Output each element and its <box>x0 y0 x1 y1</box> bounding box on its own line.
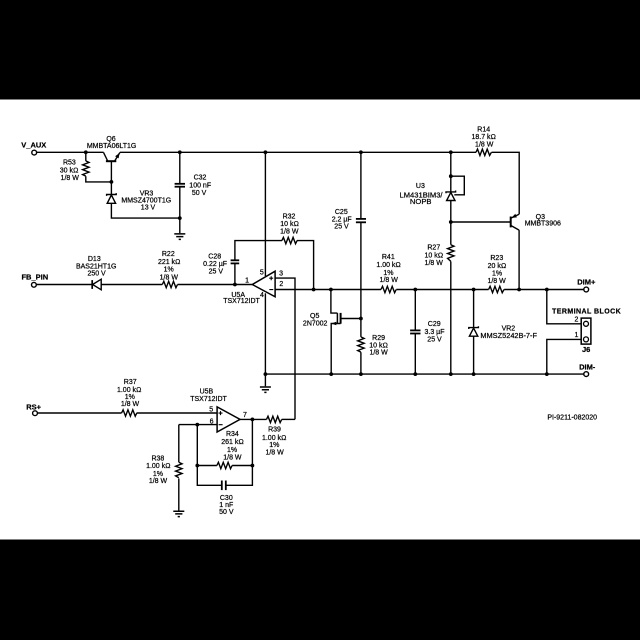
svg-text:D13: D13 <box>88 256 101 263</box>
wire FB row: FB_PIN to D13 <box>36 284 92 286</box>
label C25 <box>332 209 352 230</box>
junction ground row U5A pin4 <box>264 372 268 376</box>
wire R34 loop right <box>232 419 252 465</box>
svg-text:C25: C25 <box>335 209 348 216</box>
svg-text:R23: R23 <box>490 255 503 262</box>
junction ground row R27 <box>449 372 453 376</box>
junction ground row terminal pin1 <box>545 372 549 376</box>
svg-text:R22: R22 <box>162 251 175 258</box>
wire R29 bottom to ground row <box>360 352 362 374</box>
wire R53 top <box>85 152 87 161</box>
label terminal pin 2 <box>574 317 578 324</box>
svg-text:25 V: 25 V <box>334 224 349 231</box>
resistor R14 <box>476 149 491 155</box>
label R23 <box>487 255 506 285</box>
svg-text:261 kΩ: 261 kΩ <box>221 439 244 446</box>
svg-text:R37: R37 <box>124 379 137 386</box>
wire C32 top <box>179 152 181 183</box>
capacitor C30 <box>222 481 226 491</box>
svg-text:18.7 kΩ: 18.7 kΩ <box>471 134 495 141</box>
label Q3 <box>525 214 561 228</box>
label R34 <box>221 431 244 462</box>
wire Q6 base down <box>110 161 112 194</box>
resistor R53 <box>83 161 89 176</box>
wire U5A pin3 to R39 vertical <box>275 278 295 419</box>
svg-text:MMSZ5242B-7-F: MMSZ5242B-7-F <box>480 331 537 340</box>
junction ground row VR2 <box>472 372 476 376</box>
wire C28 top / R32 loop <box>235 241 282 261</box>
label VR2 <box>480 326 537 341</box>
svg-text:1/8 W: 1/8 W <box>280 229 299 236</box>
wire C32 bottom <box>179 187 181 218</box>
resistor R29 <box>358 337 364 352</box>
svg-text:PI-9211-082020: PI-9211-082020 <box>547 415 597 422</box>
shunt reference U3 <box>446 191 456 201</box>
svg-text:R32: R32 <box>283 213 296 220</box>
svg-text:NOPB: NOPB <box>410 197 432 206</box>
label net FB_PIN <box>21 273 48 282</box>
svg-text:20 kΩ: 20 kΩ <box>488 263 507 270</box>
wire U5A pin4 to ground row <box>264 293 266 374</box>
wire C30 loop right <box>226 466 253 486</box>
wire R14 right to Q3 emitter <box>492 152 520 214</box>
svg-text:DIM-: DIM- <box>579 363 596 372</box>
svg-text:C29: C29 <box>428 321 441 328</box>
svg-text:3: 3 <box>279 271 283 278</box>
wire U3 branch top <box>450 152 452 192</box>
junction U3 ref loop top <box>449 174 453 178</box>
terminal block J6 <box>581 318 591 344</box>
zener diode VR3 <box>107 193 117 203</box>
capacitor C32 <box>175 184 185 187</box>
label R14 <box>471 126 495 148</box>
label J6 <box>582 345 590 354</box>
svg-text:R39: R39 <box>268 427 281 434</box>
label terminal pin 1 <box>574 332 578 339</box>
svg-text:C30: C30 <box>220 495 233 502</box>
wire FB row: D13 to R22 <box>101 284 162 286</box>
junction rail U5A pin5 <box>264 150 268 154</box>
svg-text:R53: R53 <box>63 160 76 167</box>
svg-text:2: 2 <box>279 281 283 288</box>
svg-text:0.22 µF: 0.22 µF <box>203 261 227 268</box>
label R39 <box>262 427 286 457</box>
junction U3 / Q3 base <box>449 220 453 224</box>
svg-text:1%: 1% <box>269 442 279 449</box>
svg-text:5: 5 <box>209 407 213 414</box>
junction main row VR2 <box>472 288 476 292</box>
svg-text:Q5: Q5 <box>310 313 319 320</box>
transistor Q6 <box>104 152 120 161</box>
wire C25 top branch <box>360 152 362 218</box>
svg-text:TSX712IDT: TSX712IDT <box>190 396 227 403</box>
wire U5A pin5 power branch <box>264 152 266 276</box>
junction U5B output / R34 loop <box>251 418 255 422</box>
svg-text:1%: 1% <box>153 471 163 478</box>
junction main row Q5 gate <box>329 288 333 292</box>
svg-text:1/8 W: 1/8 W <box>487 278 506 285</box>
wire RS+ row to R37 <box>37 412 121 414</box>
node V_AUX terminal <box>32 150 37 155</box>
svg-text:1%: 1% <box>227 447 237 454</box>
svg-text:1%: 1% <box>125 394 135 401</box>
svg-text:1/8 W: 1/8 W <box>369 349 388 356</box>
wire Q3 collector down <box>518 230 520 289</box>
resistor R27 <box>448 245 454 262</box>
svg-text:3.3 µF: 3.3 µF <box>425 329 445 336</box>
zener diode VR2 <box>469 326 479 336</box>
label C29 <box>425 321 445 344</box>
junction R34/C30 loop right <box>251 464 255 468</box>
svg-text:7: 7 <box>243 412 247 419</box>
svg-text:1.00 kΩ: 1.00 kΩ <box>262 435 286 442</box>
label net RS+ <box>26 403 41 412</box>
junction Q6 base / R53 <box>110 180 114 184</box>
wire U3 reference loop <box>451 176 465 195</box>
wire C28 feedback lower <box>234 264 236 285</box>
wire FB row: R22 to U5A output <box>178 284 253 286</box>
label U5B <box>190 389 227 403</box>
wire U3 anode down to Q3 base node <box>450 200 452 244</box>
label D13 <box>76 256 116 278</box>
resistor R32 <box>282 237 297 243</box>
wire terminal pin2 <box>547 290 581 324</box>
label U5A <box>223 292 260 305</box>
svg-text:1/8 W: 1/8 W <box>265 450 284 457</box>
node FB_PIN terminal <box>32 282 37 287</box>
capacitor C29 <box>410 330 420 333</box>
svg-text:1.00 kΩ: 1.00 kΩ <box>146 463 170 470</box>
diode D13 <box>92 279 101 290</box>
svg-text:DIM+: DIM+ <box>577 278 596 287</box>
svg-text:R29: R29 <box>372 335 385 342</box>
wire R38 bottom to ground <box>178 479 180 511</box>
svg-text:1%: 1% <box>383 270 393 277</box>
label R27 <box>424 245 443 268</box>
label U3 <box>399 183 443 206</box>
wire U5B output to R39 <box>240 418 267 420</box>
svg-text:BAS21HT1G: BAS21HT1G <box>76 263 116 270</box>
label R41 <box>376 254 400 284</box>
label R37 <box>117 379 141 408</box>
svg-text:R34: R34 <box>226 431 239 438</box>
node DIM+ terminal <box>584 287 589 292</box>
junction main row terminal block <box>545 288 549 292</box>
junction ground row R29 <box>359 372 363 376</box>
svg-text:TERMINAL BLOCK: TERMINAL BLOCK <box>552 308 621 315</box>
label PI-9211-082020 <box>547 415 597 422</box>
capacitor C28 <box>231 260 240 263</box>
wire R53 bottom to Q6 base node <box>86 176 112 182</box>
node DIM- terminal <box>584 372 589 377</box>
label R38 <box>146 456 170 486</box>
svg-text:1/8 W: 1/8 W <box>475 142 494 149</box>
svg-text:1/8 W: 1/8 W <box>223 454 242 461</box>
svg-text:1%: 1% <box>164 267 174 274</box>
wire R37 to U5B pin5 <box>137 412 218 414</box>
resistor R37 <box>122 410 137 416</box>
wire Q5 drain lead <box>341 318 361 320</box>
label R32 <box>280 213 299 235</box>
svg-text:6: 6 <box>210 419 214 426</box>
wire C30 loop left <box>197 466 221 486</box>
svg-text:4: 4 <box>260 292 264 299</box>
label VR3 <box>121 191 171 212</box>
svg-text:RS+: RS+ <box>26 403 41 412</box>
wire R38 top vertical <box>178 425 180 463</box>
svg-text:250 V: 250 V <box>87 271 106 278</box>
wire R39 right to U5A pin3 vertical <box>282 418 295 420</box>
resistor R22 <box>162 281 177 287</box>
label C32 <box>189 175 211 198</box>
junction U5B pin6 / R34 loop <box>195 423 199 427</box>
junction ground row Q5 source <box>329 372 333 376</box>
svg-text:U5B: U5B <box>200 389 214 396</box>
label net DIM- <box>579 363 596 372</box>
svg-text:C28: C28 <box>208 253 221 260</box>
wire VR2 branch upper <box>473 290 475 328</box>
transistor Q3 <box>511 214 519 230</box>
svg-text:1/8 W: 1/8 W <box>61 175 80 182</box>
junction C32 bottom / VR3 <box>178 216 182 220</box>
wire VR3 anode to C32 bottom <box>111 203 179 218</box>
svg-text:1.00 kΩ: 1.00 kΩ <box>117 387 141 394</box>
wire Q3 base <box>451 221 511 223</box>
svg-text:10 kΩ: 10 kΩ <box>280 221 299 228</box>
ground U5A <box>260 374 271 392</box>
wire U5B pin6 <box>179 424 217 426</box>
wire V_AUX rail left <box>37 151 104 153</box>
ground C32 <box>174 218 185 239</box>
junction rail C25 <box>359 150 363 154</box>
resistor R23 <box>489 286 504 292</box>
svg-text:MMBT3906: MMBT3906 <box>525 221 561 228</box>
label Q6 <box>87 136 137 150</box>
wire main row U5A pin2 to R41 <box>275 289 381 291</box>
svg-text:1: 1 <box>574 332 578 339</box>
svg-text:2N7002: 2N7002 <box>303 320 328 327</box>
svg-text:MMBTA06LT1G: MMBTA06LT1G <box>87 143 137 150</box>
mosfet Q5 <box>331 313 340 325</box>
svg-text:5: 5 <box>260 270 264 277</box>
svg-text:1 nF: 1 nF <box>219 502 233 509</box>
label net DIM+ <box>577 278 596 287</box>
svg-text:1/8 W: 1/8 W <box>149 478 168 485</box>
label R29 <box>369 335 388 356</box>
wire Q5 gate branch <box>331 290 338 314</box>
svg-text:V_AUX: V_AUX <box>21 141 46 150</box>
junction ground row C29 <box>413 372 417 376</box>
label Q5 <box>303 313 328 327</box>
svg-text:13 V: 13 V <box>141 204 156 211</box>
svg-text:25 V: 25 V <box>209 268 224 275</box>
label TERMINAL BLOCK <box>552 308 621 315</box>
label net V_AUX <box>21 141 46 150</box>
svg-text:R38: R38 <box>151 456 164 463</box>
svg-text:1: 1 <box>245 278 249 285</box>
ground R38 <box>173 511 184 516</box>
wire terminal pin1 <box>547 339 581 374</box>
svg-text:221 kΩ: 221 kΩ <box>158 259 181 266</box>
svg-text:U3: U3 <box>416 183 425 190</box>
junction main row R32 feedback <box>312 288 316 292</box>
wire R34 loop left <box>197 425 217 466</box>
svg-text:2: 2 <box>574 317 578 324</box>
svg-text:R41: R41 <box>382 254 395 261</box>
svg-text:1%: 1% <box>492 270 502 277</box>
junction R34/C30 loop left <box>195 464 199 468</box>
wire R27 bottom to ground row <box>450 261 452 374</box>
label R22 <box>158 251 181 282</box>
label C30 <box>219 495 234 516</box>
svg-text:1/8 W: 1/8 W <box>380 277 399 284</box>
resistor R34 <box>217 462 232 468</box>
junction C28 / FB row <box>233 283 237 287</box>
svg-text:10 kΩ: 10 kΩ <box>424 252 443 259</box>
junction rail R53 <box>84 150 88 154</box>
wire main row R41 to R23 <box>396 289 488 291</box>
svg-text:C32: C32 <box>194 175 207 182</box>
junction main row C29 <box>413 288 417 292</box>
wire C25 bottom to Q5 drain node <box>360 222 362 337</box>
label R53 <box>60 160 79 183</box>
svg-text:VR3: VR3 <box>140 191 154 198</box>
svg-text:1/8 W: 1/8 W <box>425 260 444 267</box>
svg-text:25 V: 25 V <box>427 337 442 344</box>
op-amp U5A <box>252 271 275 297</box>
wire main row R23 to DIM+ <box>504 289 584 291</box>
svg-text:R14: R14 <box>477 126 490 133</box>
wire ground row <box>265 373 583 375</box>
svg-text:1/8 W: 1/8 W <box>121 401 140 408</box>
svg-text:50 V: 50 V <box>192 190 207 197</box>
svg-text:2.2 µF: 2.2 µF <box>332 216 352 223</box>
svg-text:J6: J6 <box>582 345 590 354</box>
op-amp U5B <box>217 407 240 432</box>
wire VR2 branch lower <box>473 336 475 374</box>
svg-text:50 V: 50 V <box>219 509 234 516</box>
label U5B pin numbers <box>209 407 247 426</box>
svg-text:FB_PIN: FB_PIN <box>21 273 48 282</box>
wire Q5 source lead down <box>331 324 340 375</box>
junction Q5 drain / C25 / R29 <box>359 317 363 321</box>
wire R32 right to main row <box>297 241 314 290</box>
svg-text:100 nF: 100 nF <box>189 182 211 189</box>
svg-text:30 kΩ: 30 kΩ <box>60 167 79 174</box>
svg-text:10 kΩ: 10 kΩ <box>369 342 388 349</box>
wire C29 branch lower <box>414 334 416 375</box>
junction rail C32 <box>178 150 182 154</box>
resistor R39 <box>267 416 282 422</box>
label C28 <box>203 253 227 275</box>
wire C29 branch upper <box>414 290 416 331</box>
node RS+ terminal <box>33 411 38 416</box>
wire rail Q6 emitter to R14 left <box>120 151 476 153</box>
junction rail U3 <box>449 150 453 154</box>
svg-text:TSX712IDT: TSX712IDT <box>223 298 260 305</box>
svg-text:R27: R27 <box>427 245 440 252</box>
capacitor C25 <box>356 219 366 222</box>
junction main row Q3 collector <box>517 288 521 292</box>
resistor R41 <box>381 286 396 292</box>
svg-text:1.00 kΩ: 1.00 kΩ <box>376 262 400 269</box>
label U5A pin numbers <box>245 270 283 300</box>
svg-text:1/8 W: 1/8 W <box>160 274 179 281</box>
resistor R38 <box>176 462 182 477</box>
